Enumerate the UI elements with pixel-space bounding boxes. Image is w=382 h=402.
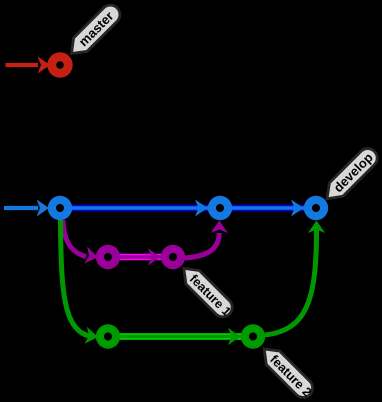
wire: master entry arrow bbox=[6, 56, 51, 73]
wire: feature2 segment G1 to G2 bbox=[108, 328, 253, 345]
commit R1 (master) bbox=[47, 52, 72, 77]
wire: feature1 segment P1 to P2 bbox=[108, 248, 173, 265]
commit B1 (develop) bbox=[48, 196, 72, 220]
wire: develop entry arrow bbox=[4, 199, 49, 216]
label feature 1 tag bbox=[177, 262, 236, 321]
wire: feature2 branch-out curve bbox=[61, 220, 100, 346]
wire: feature1 merge curve into B2 bbox=[185, 221, 228, 259]
commit G1 (feature 2) bbox=[96, 324, 120, 348]
commit B3 (develop) bbox=[304, 196, 328, 220]
wire: develop segment B2 to B3 bbox=[220, 199, 316, 216]
wire: develop segment B1 to B2 bbox=[60, 199, 220, 216]
commit G2 (feature 2) bbox=[241, 324, 265, 348]
label feature 2 tag bbox=[257, 342, 316, 401]
label master tag bbox=[65, 1, 124, 60]
wire: feature2 merge curve into B3 bbox=[265, 221, 325, 336]
wire: feature1 branch-out curve bbox=[63, 220, 99, 266]
commit B2 (develop) bbox=[208, 196, 232, 220]
label develop tag bbox=[320, 145, 381, 206]
commit P2 (feature 1) bbox=[161, 245, 185, 269]
commit P1 (feature 1) bbox=[96, 245, 120, 269]
